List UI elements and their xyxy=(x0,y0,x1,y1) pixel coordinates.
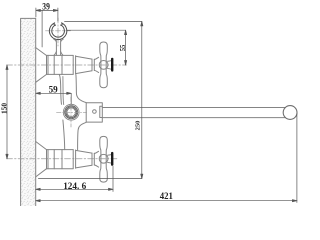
svg-text:124. 6: 124. 6 xyxy=(63,182,86,192)
lower handle black end cap xyxy=(111,152,113,166)
dim 124.6 dimension line xyxy=(36,188,113,190)
centerline top valve (dash-dot) xyxy=(7,64,127,66)
block inner circle xyxy=(93,110,97,114)
dim 250 extension at bottom xyxy=(38,178,141,180)
svg-text:150: 150 xyxy=(0,102,8,114)
central column right edge lower xyxy=(78,122,87,150)
top cross handle bar (side view) xyxy=(100,42,108,88)
central column left edge xyxy=(59,75,61,105)
dim 39 dimension line xyxy=(36,8,58,47)
centerline lower valve (dash-dot) xyxy=(7,158,119,160)
hook centerline vertical xyxy=(57,18,59,46)
lower cross handle bar (side view) xyxy=(100,136,108,182)
dim 421 dimension line xyxy=(36,200,297,202)
dim 59 dimension line xyxy=(36,92,71,104)
lower valve taper cone xyxy=(76,150,92,168)
svg-text:59: 59 xyxy=(49,86,58,96)
top handle hub circle xyxy=(99,61,108,70)
hook stem xyxy=(54,39,63,55)
dim 150 dimension line xyxy=(6,65,8,159)
lower valve body cylinder xyxy=(47,150,74,169)
central column left edge lower xyxy=(63,120,65,150)
central column left inner line xyxy=(62,77,65,105)
lower handle right arm xyxy=(108,155,111,163)
lower valve wall flange cone xyxy=(36,142,47,177)
top valve taper cone xyxy=(76,56,92,73)
top handle right arm xyxy=(108,61,111,69)
shower hook C-ring xyxy=(49,23,66,40)
dim 55 extension from hook center xyxy=(67,29,126,31)
svg-text:250: 250 xyxy=(135,121,142,131)
dim 250 extension from hook top xyxy=(65,20,142,22)
top valve wall flange cone xyxy=(36,48,47,83)
spout tip circle xyxy=(283,106,297,120)
lower handle hub circle xyxy=(99,154,108,163)
lower valve collar ring xyxy=(73,150,75,169)
dim 421 extension line at spout tip xyxy=(296,114,298,203)
central column right edge upper xyxy=(76,75,86,103)
block inner bracket xyxy=(100,106,103,117)
spout swivel nut concentric circles xyxy=(63,104,79,120)
spout tube bottom line xyxy=(102,117,285,119)
svg-text:39: 39 xyxy=(42,3,50,13)
top handle black end cap xyxy=(111,58,113,72)
top handle bonnet and skirt xyxy=(94,57,98,72)
dim 250 dimension line xyxy=(141,21,143,178)
top valve body cylinder xyxy=(47,55,74,74)
lower handle bonnet and skirt xyxy=(94,151,98,167)
top valve collar ring xyxy=(73,56,75,75)
spout tube top line xyxy=(102,107,285,109)
swivel nut crosshair horizontal xyxy=(57,111,87,113)
dim 124.6 extension line xyxy=(112,166,114,191)
swivel nut crosshair vertical xyxy=(70,97,72,127)
svg-text:421: 421 xyxy=(160,192,173,202)
spout holder block xyxy=(86,103,102,122)
hook centerline horizontal xyxy=(46,30,71,32)
svg-text:55: 55 xyxy=(118,44,127,51)
dim 55 dimension line xyxy=(125,30,127,65)
wall section (stippled strip) xyxy=(21,18,36,206)
